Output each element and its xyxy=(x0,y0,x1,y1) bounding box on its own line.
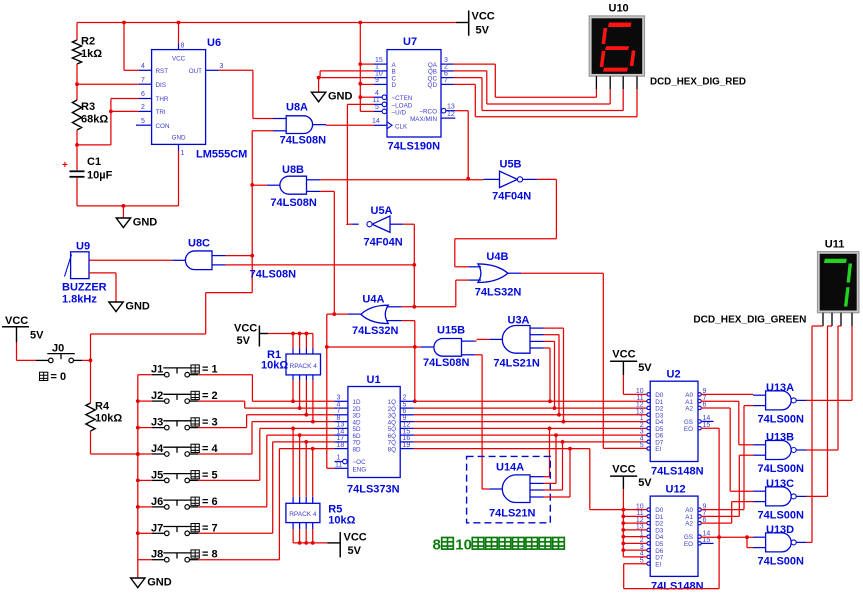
svg-text:1.8kHz: 1.8kHz xyxy=(62,294,97,306)
U2 pin A1 xyxy=(698,399,701,402)
U2 pin D1 xyxy=(647,399,650,402)
or-gate U4B 74LS32N xyxy=(478,264,508,283)
svg-text:CON: CON xyxy=(156,123,170,130)
U6 pin 2 TRI xyxy=(139,110,152,112)
resistor R2 1k xyxy=(76,23,78,41)
U11 display pins xyxy=(822,313,824,326)
svg-text:VCC: VCC xyxy=(344,532,367,544)
svg-text:74LS00N: 74LS00N xyxy=(758,413,805,425)
svg-text:74LS00N: 74LS00N xyxy=(758,555,805,567)
svg-text:LM555CM: LM555CM xyxy=(196,149,247,161)
svg-text:U5B: U5B xyxy=(500,159,522,171)
svg-text:= 3: = 3 xyxy=(202,417,218,429)
svg-text:D: D xyxy=(392,82,397,89)
U7 pin ~CTEN 4 xyxy=(374,96,382,98)
svg-text:8D: 8D xyxy=(353,446,362,453)
wire J5 to latch 5D xyxy=(198,479,260,481)
svg-text:GND: GND xyxy=(328,91,353,103)
nand-gate U13B 74LS00N xyxy=(766,441,792,460)
wire J0 to U8C net xyxy=(82,359,90,361)
U12 pin A0 xyxy=(698,508,701,511)
svg-text:J3: J3 xyxy=(151,417,163,429)
svg-text:U14A: U14A xyxy=(496,462,524,474)
svg-text:10µF: 10µF xyxy=(87,170,113,182)
svg-text:U10: U10 xyxy=(609,3,629,15)
wire 3Q row to U2 D3 xyxy=(414,414,647,416)
svg-text:EI: EI xyxy=(655,561,661,568)
svg-text:5V: 5V xyxy=(638,362,652,374)
resistor pack R5 RPACK4 10k xyxy=(286,503,320,522)
U6 pin 4 RST xyxy=(139,69,152,71)
svg-text:10: 10 xyxy=(455,537,472,554)
wire U8C.in2 long row to net A xyxy=(226,264,415,266)
and-gate U15B 74LS08N (mirrored) xyxy=(434,339,462,357)
power VCC 5V (U12) xyxy=(610,475,637,477)
wire U15B.in1 to U3A out xyxy=(475,340,477,342)
svg-text:VCC: VCC xyxy=(612,463,635,475)
svg-text:GND: GND xyxy=(133,217,158,229)
svg-text:EO: EO xyxy=(684,426,693,433)
svg-text:U5A: U5A xyxy=(371,205,393,217)
svg-text:74LS21N: 74LS21N xyxy=(489,508,536,520)
svg-text:1kΩ: 1kΩ xyxy=(81,48,102,60)
svg-text:74LS08N: 74LS08N xyxy=(250,269,297,281)
svg-text:74LS21N: 74LS21N xyxy=(493,358,540,370)
svg-text:8Q: 8Q xyxy=(388,446,397,453)
svg-text:J4: J4 xyxy=(151,443,164,455)
and-gate U8A 74LS08N xyxy=(286,116,312,134)
wire A and D load-high from rail xyxy=(359,23,361,112)
inverter U5B 74F04N xyxy=(500,171,518,187)
svg-text:11: 11 xyxy=(335,462,342,469)
svg-text:= 6: = 6 xyxy=(202,496,218,508)
wire VCC rail top xyxy=(77,22,456,24)
U2 pin EI xyxy=(647,447,650,450)
encoder U2 74LS148N body xyxy=(650,381,698,461)
svg-text:= 7: = 7 xyxy=(202,522,218,534)
U1 pin 1Q xyxy=(400,400,414,402)
svg-text:U12: U12 xyxy=(666,484,686,496)
wire QC to U10 pin3 xyxy=(454,77,482,79)
svg-text:74F04N: 74F04N xyxy=(492,191,531,203)
U1 pin 8Q xyxy=(400,448,414,450)
U12 pin D3 xyxy=(647,528,650,531)
U6 pin 6 THR xyxy=(139,98,152,100)
svg-text:= 5: = 5 xyxy=(202,469,218,481)
U1 pin 2D xyxy=(335,407,348,409)
inverter U5A 74F04N (mirrored) xyxy=(372,216,390,232)
U2 pin D0 xyxy=(647,393,650,396)
svg-text:74LS148N: 74LS148N xyxy=(651,581,704,593)
capacitor C1 10uF xyxy=(76,145,78,170)
U7 pin MAX/MIN 12 xyxy=(441,117,455,119)
wire U8C.in1 stub to J0 net xyxy=(226,255,253,257)
wire J8 to latch 8D xyxy=(198,559,279,561)
resistor pack R1 RPACK4 10k xyxy=(286,354,321,375)
U2 pin D2 xyxy=(647,406,650,409)
ground GND (buzzer) xyxy=(109,302,123,312)
wire U5B out to U4B.in1 xyxy=(537,178,556,180)
wire ~LOAD from U5A output xyxy=(347,103,374,105)
wire U12 GS to U13D inputs xyxy=(701,536,753,538)
wire U13C out to U11 pin2 xyxy=(806,495,827,497)
wire U13A out to U11 pin4 xyxy=(806,399,852,401)
U1 pin 3Q xyxy=(400,414,414,416)
wire QD to U10 pin4 xyxy=(454,83,476,85)
svg-text:EI: EI xyxy=(655,446,661,453)
svg-text:74LS00N: 74LS00N xyxy=(758,509,805,521)
wire 2Q row to U2 D2 xyxy=(414,407,647,409)
svg-text:10kΩ: 10kΩ xyxy=(95,413,122,425)
U7 pin CLK 14 with clock wedge xyxy=(374,124,387,126)
svg-text:13: 13 xyxy=(447,103,455,110)
U1 pin 7D xyxy=(335,441,348,443)
svg-text:THR: THR xyxy=(156,96,169,103)
wire 8Q row to U12 D0 xyxy=(414,448,590,450)
and4-gate U3A 74LS21N (mirrored) xyxy=(502,326,530,354)
svg-text:U8A: U8A xyxy=(286,102,308,114)
svg-text:DCD_HEX_DIG_RED: DCD_HEX_DIG_RED xyxy=(650,77,746,88)
U12 pin A2 xyxy=(698,521,701,524)
svg-text:J2: J2 xyxy=(151,390,163,402)
svg-text:U2: U2 xyxy=(667,369,681,381)
svg-text:74LS00N: 74LS00N xyxy=(758,463,805,475)
wire U12 EI loop from U2 EO xyxy=(624,563,647,565)
wire QA to U10 pin1 xyxy=(454,63,496,65)
or-gate U4A 74LS32N (mirrored) xyxy=(361,305,388,323)
wire U15B.in2 to U14A out xyxy=(475,354,482,356)
svg-text:10kΩ: 10kΩ xyxy=(328,515,355,527)
svg-text:8: 8 xyxy=(433,537,441,554)
switch J4 xyxy=(138,453,152,455)
U2 pin D6 xyxy=(647,433,650,436)
resistor R3 68k xyxy=(76,84,78,100)
svg-text:BUZZER: BUZZER xyxy=(62,282,107,294)
power VCC 5V (top) xyxy=(468,11,470,36)
svg-text:= 0: = 0 xyxy=(51,371,67,383)
resistor R4 10k xyxy=(90,360,92,403)
switch J8 xyxy=(138,559,152,561)
wire J1 to latch 1D xyxy=(198,374,252,376)
U1 pin 6Q xyxy=(400,434,414,436)
svg-text:5: 5 xyxy=(640,442,644,449)
wire U15B nose row to ENG vertical xyxy=(327,346,421,348)
U6 pin 3 OUT wire to U8A xyxy=(206,69,219,71)
and-gate U8C 74LS08N (mirrored) xyxy=(185,251,212,270)
svg-text:~LOAD: ~LOAD xyxy=(392,102,413,109)
svg-text:= 4: = 4 xyxy=(202,443,218,455)
svg-text:R4: R4 xyxy=(95,401,110,413)
U6 pin 8 VCC xyxy=(178,23,180,44)
wire U4A out row xyxy=(348,313,361,315)
selection dashed box U14A xyxy=(467,456,551,522)
switch J1 xyxy=(138,374,152,376)
U2 pin A2 xyxy=(698,406,701,409)
svg-text:74LS08N: 74LS08N xyxy=(423,357,470,369)
ground GND (C1) xyxy=(122,206,124,218)
wire 4Q row to U2 D4 xyxy=(414,421,647,423)
svg-text:J7: J7 xyxy=(151,522,163,534)
U2 pin D5 xyxy=(647,427,650,430)
wire J6 to latch 6D xyxy=(198,506,267,508)
svg-text:5V: 5V xyxy=(30,330,44,342)
wire U2 A1 to U13B.in1 xyxy=(701,400,739,402)
U7 left pin stubs A B C D xyxy=(374,63,387,65)
U12 pin D0 xyxy=(647,508,650,511)
svg-text:U15B: U15B xyxy=(437,325,465,337)
wire U2 VCC to D0 xyxy=(622,375,624,394)
U1 pin 4Q xyxy=(400,421,414,423)
svg-text:9: 9 xyxy=(375,77,379,84)
svg-text:VCC: VCC xyxy=(234,323,257,335)
svg-text:R2: R2 xyxy=(81,36,95,48)
svg-text:TRI: TRI xyxy=(156,109,166,116)
svg-text:74LS373N: 74LS373N xyxy=(347,484,400,496)
svg-text:J1: J1 xyxy=(151,364,163,376)
svg-text:74LS32N: 74LS32N xyxy=(352,325,399,337)
svg-text:VCC: VCC xyxy=(5,315,28,327)
wire U4A.out corner down to U15B/ENG vertical xyxy=(326,314,328,468)
svg-text:4: 4 xyxy=(141,63,145,70)
U2 pin EO xyxy=(698,427,701,430)
latch U1 74LS373N body xyxy=(348,387,400,478)
wires U3A inputs down to latch rows 1-4 xyxy=(544,327,564,329)
U2 pin D4 xyxy=(647,420,650,423)
svg-text:~CTEN: ~CTEN xyxy=(392,95,413,102)
power VCC 5V (J0) xyxy=(2,326,29,328)
svg-text:5V: 5V xyxy=(638,477,652,489)
ground GND (U7 BC) xyxy=(318,78,320,93)
svg-text:OUT: OUT xyxy=(189,68,202,75)
buzzer U9 1.8kHz xyxy=(71,252,89,279)
svg-text:U13C: U13C xyxy=(766,478,794,490)
U1 pin 5D xyxy=(335,427,348,429)
wire 5Q row to U2 D5 xyxy=(414,427,647,429)
U6 pin 1 GND xyxy=(178,144,180,151)
wire U8A.in2 / U8B.out / U8C.in1 / J0 net vertical xyxy=(252,130,273,132)
svg-text:VCC: VCC xyxy=(472,11,495,23)
power VCC 5V (R5) xyxy=(339,532,341,557)
svg-text:VCC: VCC xyxy=(612,349,635,361)
wire ~U/D to rail net xyxy=(360,110,374,112)
svg-text:EO: EO xyxy=(684,541,693,548)
wire U5A out up to ~LOAD xyxy=(346,223,348,226)
wire buzzer bottom to ground xyxy=(89,272,116,274)
wire B C to GND xyxy=(320,70,374,72)
wire U13D out to U11 pin1 xyxy=(806,541,812,543)
svg-text:74F04N: 74F04N xyxy=(364,237,403,249)
nand-gate U13C 74LS00N xyxy=(766,487,792,506)
U12 pin EO xyxy=(698,542,701,545)
svg-text:U13A: U13A xyxy=(766,382,794,394)
U12 pin D6 xyxy=(647,548,650,551)
U1 pin 1D xyxy=(335,400,348,402)
wires U14A inputs to rows xyxy=(544,476,550,478)
svg-text:CLK: CLK xyxy=(395,123,408,130)
svg-text:J5: J5 xyxy=(151,469,163,481)
svg-text:U1: U1 xyxy=(367,374,381,386)
svg-text:74LS32N: 74LS32N xyxy=(475,287,522,299)
power VCC 5V (R1) xyxy=(258,326,260,347)
switch J3 xyxy=(138,427,152,429)
wire key ground bus xyxy=(137,375,139,578)
svg-text:DCD_HEX_DIG_GREEN: DCD_HEX_DIG_GREEN xyxy=(693,315,806,326)
svg-text:R3: R3 xyxy=(81,101,95,113)
wire U12 A1 to U13B.in2 xyxy=(701,515,740,517)
wire QB to U10 pin2 xyxy=(454,70,487,72)
svg-text:U4B: U4B xyxy=(486,251,508,263)
svg-text:GND: GND xyxy=(172,135,186,142)
wire J4 to latch 4D xyxy=(198,453,252,455)
svg-text:= 1: = 1 xyxy=(202,364,218,376)
U1 pin ENG xyxy=(335,467,348,469)
U2 pin D7 xyxy=(647,440,650,443)
U2 pin D3 xyxy=(647,413,650,416)
switch J7 xyxy=(138,532,152,534)
U12 pin GS xyxy=(698,535,701,538)
and4-gate U14A 74LS21N (mirrored) xyxy=(502,475,530,503)
svg-text:~OC: ~OC xyxy=(353,459,367,466)
svg-text:U8B: U8B xyxy=(282,164,304,176)
svg-text:U9: U9 xyxy=(76,241,90,253)
svg-text:11: 11 xyxy=(373,97,380,104)
svg-text:RPACK 4: RPACK 4 xyxy=(289,511,317,518)
svg-text:RPACK 4: RPACK 4 xyxy=(290,363,318,370)
wire ~CTEN to rail net xyxy=(360,96,374,98)
wire U4A.in1 row xyxy=(387,306,402,308)
svg-text:A2: A2 xyxy=(685,521,693,528)
wire J3 to latch 3D xyxy=(198,427,246,429)
wire THR/TRI to R3 bottom xyxy=(111,98,139,100)
svg-text:A2: A2 xyxy=(685,406,693,413)
nand-gate U13D 74LS00N xyxy=(766,533,792,552)
svg-text:C1: C1 xyxy=(87,156,101,168)
wire ~RCO down to U5B input net xyxy=(455,110,468,112)
U12 pin D2 xyxy=(647,521,650,524)
and-gate U8B 74LS08N (mirrored) xyxy=(280,176,307,194)
wires latch rows 5-8 down to U14A inputs xyxy=(549,428,551,476)
svg-text:RST: RST xyxy=(156,68,169,75)
wire U2 A2 to U13C.in1 xyxy=(701,407,730,409)
svg-text:MAX/MIN: MAX/MIN xyxy=(410,116,437,123)
svg-text:5V: 5V xyxy=(476,25,490,37)
node R3/C1/THR junction xyxy=(75,143,79,147)
svg-text:6: 6 xyxy=(141,91,145,98)
svg-text:68kΩ: 68kΩ xyxy=(81,114,108,126)
svg-text:12: 12 xyxy=(447,111,455,118)
wire U4B out to U2 EI xyxy=(521,272,603,274)
svg-text:U6: U6 xyxy=(207,37,221,49)
U7 pin ~RCO 13 xyxy=(441,108,446,113)
svg-text:ENG: ENG xyxy=(353,466,367,473)
wire C1 to U6 GND pin1 xyxy=(77,205,179,207)
U1 pin 5Q xyxy=(400,427,414,429)
svg-text:DIS: DIS xyxy=(156,82,167,89)
wire U14A out to U15B.in2 xyxy=(482,488,489,490)
wires R5 pins down to VCC xyxy=(292,523,294,530)
U1 pin 3D xyxy=(335,414,348,416)
op timer U6 LM555CM body xyxy=(152,50,206,145)
svg-text:= 8: = 8 xyxy=(202,549,218,561)
nand-gate U13A 74LS00N xyxy=(766,391,792,410)
svg-text:J8: J8 xyxy=(151,549,163,561)
U2 pin A0 xyxy=(698,393,701,396)
svg-text:18: 18 xyxy=(337,442,345,449)
svg-text:U11: U11 xyxy=(825,239,845,251)
svg-text:= 2: = 2 xyxy=(202,390,218,402)
U1 pin 8D xyxy=(335,448,348,450)
svg-text:2: 2 xyxy=(141,104,145,111)
U12 pin EO stub xyxy=(701,542,714,544)
display U11 DCD_HEX_DIG_GREEN xyxy=(818,252,859,313)
svg-text:J0: J0 xyxy=(52,343,64,355)
svg-text:5V: 5V xyxy=(237,335,251,347)
switch J5 xyxy=(138,479,152,481)
svg-text:5: 5 xyxy=(141,118,145,125)
svg-text:U8C: U8C xyxy=(188,238,210,250)
svg-text:14: 14 xyxy=(372,118,380,125)
svg-text:74LS08N: 74LS08N xyxy=(280,135,327,147)
U10 display pins xyxy=(595,76,597,89)
U7 pin ~LOAD 11 xyxy=(374,103,382,105)
wire net A vertical U5A.in to U8C.in2 row to U4A.in1 row xyxy=(413,224,415,307)
wire U8B.in2 down to U4A output xyxy=(320,190,334,192)
node R2/R3/DIS junction xyxy=(75,82,79,86)
wires R1 pins down to latch rows 1-4 xyxy=(292,375,294,380)
counter U7 74LS190N body xyxy=(387,50,441,137)
svg-text:5V: 5V xyxy=(348,545,362,557)
U2 pin GS stub xyxy=(701,420,714,422)
wire U12 A0 to U13A.in2 xyxy=(701,509,744,511)
svg-text:7: 7 xyxy=(444,77,448,84)
U12 pin D4 xyxy=(647,535,650,538)
svg-text:QD: QD xyxy=(428,82,438,89)
wire U12 A2 to U13C.in2 xyxy=(701,522,732,524)
U1 pin 4D xyxy=(335,421,348,423)
wire R4 bottom to key bus xyxy=(91,453,138,455)
encoder U12 74LS148N body xyxy=(650,496,698,576)
wires R5 pins up to latch rows 5-8 xyxy=(292,497,294,504)
svg-text:U7: U7 xyxy=(403,36,417,48)
U7 right pin stubs QA-QD xyxy=(441,63,454,65)
U6 pin 5 CON xyxy=(136,124,152,126)
wire U4A.in2 to 1Q net vertical xyxy=(387,320,402,322)
svg-text:U13B: U13B xyxy=(766,432,794,444)
U1 pin 2Q xyxy=(400,407,414,409)
svg-text:10kΩ: 10kΩ xyxy=(261,360,288,372)
switch J0 xyxy=(16,342,18,360)
svg-text:3: 3 xyxy=(220,63,224,70)
wire U8C out to buzzer xyxy=(89,259,172,261)
wire U13B out to U11 pin3 xyxy=(806,449,838,451)
switch J6 xyxy=(138,506,152,508)
wire 7Q row to U2 D7 xyxy=(414,441,647,443)
svg-text:~RCO: ~RCO xyxy=(419,109,437,116)
wire 6Q row to U2 D6 xyxy=(414,434,647,436)
U12 pin EI xyxy=(647,562,650,565)
U1 pin 6D xyxy=(335,434,348,436)
U12 pin A1 xyxy=(698,515,701,518)
svg-text:7: 7 xyxy=(141,77,145,84)
U1 pin ~OC xyxy=(335,461,343,463)
U7 pin ~U/D 5 xyxy=(374,110,382,112)
svg-text:+: + xyxy=(62,160,68,171)
U12 pin D1 xyxy=(647,515,650,518)
svg-text:~U/D: ~U/D xyxy=(392,109,407,116)
wire U12 VCC + 8Q to D0 and pulls D1-D7 xyxy=(622,489,624,510)
wire U2 A0 to U13A.in1 xyxy=(701,393,753,395)
svg-text:74LS08N: 74LS08N xyxy=(270,197,317,209)
